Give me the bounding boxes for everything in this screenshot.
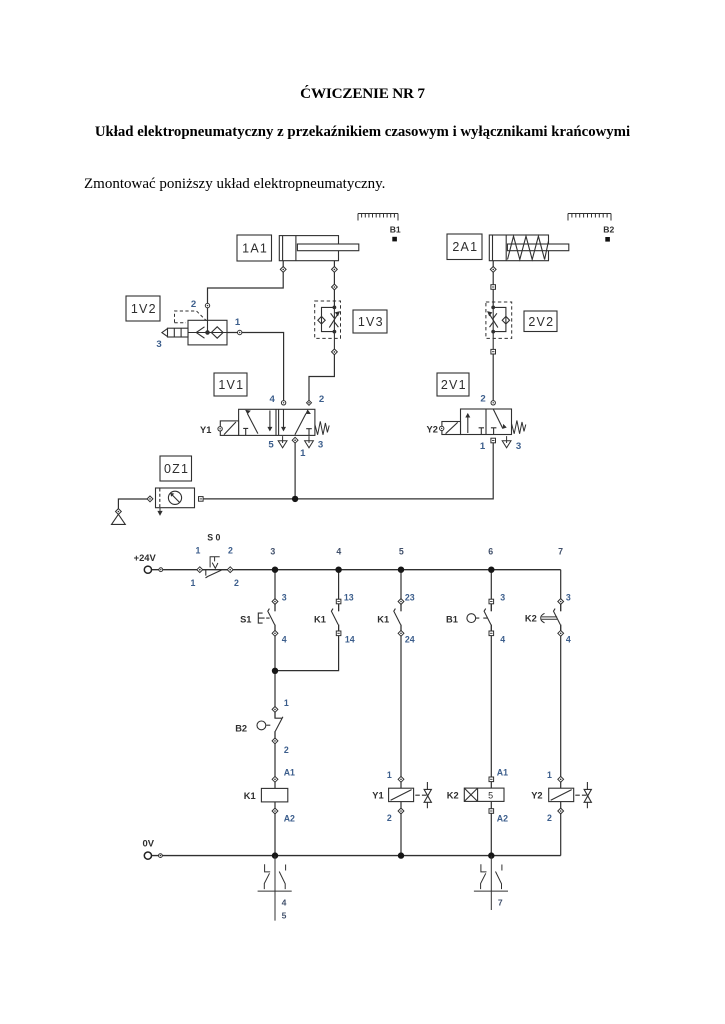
svg-text:5: 5 [282, 910, 287, 920]
label box 2A1 [447, 234, 482, 260]
cylinder 2A1 [489, 235, 569, 261]
svg-text:B2: B2 [235, 723, 247, 733]
svg-text:1: 1 [300, 448, 306, 459]
svg-text:1: 1 [235, 317, 241, 328]
svg-text:6: 6 [488, 547, 493, 557]
label box 0Z1 [160, 456, 192, 481]
2V1 arrowheads [466, 414, 470, 418]
pin node Y2 coil 1 [558, 776, 564, 782]
port node 0Z1 right [199, 497, 204, 502]
svg-text:2: 2 [284, 745, 289, 755]
flow control valve 1V3 [315, 301, 341, 338]
port node 1 (1V2) [238, 330, 242, 334]
wire rung 6 to K2 coil [490, 625, 492, 789]
svg-text:5: 5 [488, 791, 493, 801]
drain arrow 0Z1 [158, 508, 162, 515]
pin node S1 top [272, 599, 278, 605]
port node 1 (2V1) [491, 438, 496, 443]
svg-text:3: 3 [516, 441, 521, 452]
relay coil K1 [261, 788, 287, 802]
paragraph [84, 176, 385, 193]
wire 1V3 to 1V1 port 2 [309, 349, 334, 400]
cylinder 1A1 [279, 236, 359, 261]
pin node S0-right [227, 567, 233, 573]
svg-text:7: 7 [558, 547, 563, 557]
line connector [491, 349, 496, 354]
svg-text:3: 3 [282, 592, 287, 602]
line connector [491, 285, 496, 290]
svg-text:4: 4 [282, 635, 287, 645]
contact cross-reference K2 [474, 856, 508, 910]
pin node S1 bottom [272, 630, 278, 636]
node [205, 303, 209, 307]
svg-text:4: 4 [336, 547, 341, 557]
port node 0Z1 left [147, 496, 153, 502]
svg-text:2: 2 [228, 546, 233, 556]
document subtitle [0, 124, 725, 141]
muffler on 1V2 port 3 [162, 328, 188, 337]
svg-text:1: 1 [191, 578, 196, 588]
svg-text:1: 1 [387, 770, 392, 780]
junction rail rung 3 [272, 567, 278, 573]
svg-text:B1: B1 [390, 225, 401, 235]
svg-text:0Z1: 0Z1 [164, 462, 189, 476]
line connector [280, 267, 286, 273]
solenoid Y2 [442, 422, 461, 435]
label box 2V2 [524, 311, 557, 332]
svg-text:2V1: 2V1 [441, 378, 467, 392]
junction rail rung 6 [488, 567, 494, 573]
pin node B1 top [489, 599, 494, 604]
svg-text:2: 2 [387, 813, 392, 823]
label box 2V1 [437, 373, 469, 396]
svg-text:K1: K1 [377, 614, 389, 624]
port node 2 (2V1) [491, 401, 495, 405]
svg-text:B1: B1 [446, 614, 458, 624]
junction rail rung 5 [398, 567, 404, 573]
svg-text:K2: K2 [447, 791, 459, 801]
svg-text:S1: S1 [240, 614, 251, 624]
svg-text:3: 3 [156, 339, 161, 350]
label box 1A1 [237, 235, 272, 261]
pin node Y2 [440, 426, 444, 430]
return spring 2V1 [512, 421, 526, 434]
junction rung 3/4 [272, 668, 278, 674]
wire rung 5 upper [400, 570, 402, 612]
wire 1V1 port 1 down [294, 443, 296, 499]
label box 1V3 [353, 310, 387, 333]
label box 1V1 [214, 373, 247, 396]
label box 1V2 [126, 296, 160, 321]
wire 1A1 left port to 1V2 port 2 [208, 261, 284, 321]
pin node S0-left [197, 567, 203, 573]
junction 0V rung 6 [488, 852, 494, 858]
svg-text:5: 5 [399, 547, 404, 557]
svg-text:3: 3 [270, 547, 275, 557]
node [159, 568, 163, 572]
junction 0V rung 5 [398, 852, 404, 858]
svg-text:4: 4 [500, 635, 505, 645]
exhaust port 5 (1V1) [278, 436, 287, 448]
1V1 arrowheads [246, 410, 251, 414]
line connector [332, 284, 338, 290]
air supply source [112, 514, 126, 524]
svg-text:S 0: S 0 [207, 533, 220, 543]
line connector [332, 349, 338, 355]
line connector [116, 509, 122, 515]
wire rung 7 to Y2 coil [560, 625, 562, 789]
svg-text:1V3: 1V3 [358, 315, 384, 329]
svg-text:23: 23 [405, 592, 415, 602]
pin node K2 contact top [558, 599, 564, 605]
contact B1 (NO limit switch) [484, 602, 491, 634]
wire 2V2 to 2V1 port 2 [492, 349, 494, 400]
pin node Y1 coil 1 [398, 776, 404, 782]
flow control valve 2V2 [486, 302, 512, 338]
svg-text:+24V: +24V [134, 552, 157, 563]
line connector [490, 267, 496, 273]
pin node K1 bottom [336, 631, 341, 636]
wire 2A1 port to 2V2 [492, 261, 494, 305]
junction rail rung 4 [335, 567, 341, 573]
pin node B2 bottom [272, 738, 278, 744]
S0 detent latch [210, 557, 220, 569]
svg-text:1V1: 1V1 [218, 378, 244, 392]
wire rung 3 middle [274, 625, 276, 719]
svg-text:2: 2 [319, 394, 324, 405]
exhaust port 3 (2V1) [502, 436, 511, 448]
document title [0, 85, 725, 102]
wire rung 7 upper [560, 570, 562, 612]
0V supply rail [152, 855, 561, 857]
svg-text:1: 1 [547, 770, 552, 780]
wire 1A1 right port to 1V3 [333, 261, 335, 306]
svg-text:A2: A2 [497, 814, 508, 824]
contact K1 (NO, rung 5) [394, 602, 401, 634]
3/2 valve 2V1 body [461, 409, 512, 435]
svg-text:Y2: Y2 [531, 791, 542, 801]
pressure supply line [201, 443, 493, 499]
svg-text:3: 3 [318, 440, 323, 451]
pin node K1 coil A1 [272, 776, 278, 782]
terminal +24V [144, 566, 151, 573]
wire 0Z1 to air supply [118, 499, 147, 511]
wire Y2 coil to 0V rail [560, 802, 562, 856]
svg-text:A2: A2 [284, 814, 295, 824]
switch S0 [203, 570, 228, 578]
svg-text:4: 4 [566, 635, 571, 645]
contact cross-reference K1 [258, 856, 292, 921]
wire rung 4 upper [338, 570, 340, 612]
contact K1 (NO, rung 4) [331, 602, 338, 634]
marker square B1 [392, 237, 397, 242]
5/2 valve 1V1 body [239, 409, 315, 435]
return spring 1V1 [315, 421, 329, 435]
pin node K1 rung5 top [398, 599, 404, 605]
svg-text:2: 2 [191, 299, 196, 310]
distance ruler B2 [568, 214, 611, 221]
svg-text:2V2: 2V2 [528, 315, 554, 329]
pin node K2 coil A1 [489, 777, 494, 782]
timer relay coil K2 (delay 5) [464, 788, 504, 801]
exhaust port 3 (1V1) [305, 436, 314, 448]
port node 2 (1V1) [307, 400, 312, 405]
svg-text:2: 2 [480, 394, 485, 405]
svg-text:A1: A1 [497, 767, 508, 777]
pin node K2 contact bottom [558, 630, 564, 636]
svg-text:3: 3 [566, 592, 571, 602]
svg-text:3: 3 [500, 592, 505, 602]
port node 4 (1V1) [281, 401, 285, 405]
pin node K1 rung5 bottom [398, 630, 404, 636]
junction pressure line [292, 496, 298, 502]
svg-text:Y2: Y2 [427, 424, 438, 434]
pin node Y1 coil 2 [398, 808, 404, 814]
node [159, 854, 163, 858]
valve solenoid coil Y1 [389, 782, 432, 808]
pin node K1 coil A2 [272, 808, 278, 814]
pin node K2 coil A2 [489, 809, 494, 814]
svg-text:2: 2 [234, 578, 239, 588]
pin node Y1 [218, 427, 222, 431]
svg-text:4: 4 [282, 897, 287, 907]
wire rung 4 to rung 3 [275, 625, 339, 671]
valve solenoid coil Y2 [549, 782, 592, 808]
wire rung 6 upper [490, 570, 492, 612]
svg-text:14: 14 [345, 635, 355, 645]
svg-text:24: 24 [405, 635, 415, 645]
contact K2 (NO, delayed) [554, 602, 561, 634]
contact B2 (NC limit switch) [275, 712, 283, 739]
svg-text:B2: B2 [603, 225, 614, 235]
svg-text:1: 1 [284, 698, 289, 708]
svg-text:13: 13 [344, 592, 354, 602]
air service unit 0Z1 [156, 488, 195, 508]
svg-text:2A1: 2A1 [452, 240, 478, 254]
pin node B2 top [272, 707, 278, 713]
pilot dashed line 1V2 [175, 311, 207, 323]
svg-text:1: 1 [196, 546, 201, 556]
wire rung 3 to K1 coil [274, 731, 276, 788]
svg-text:0V: 0V [143, 837, 155, 848]
svg-text:K2: K2 [525, 614, 537, 624]
svg-text:1A1: 1A1 [242, 242, 268, 256]
pin node Y2 coil 2 [558, 808, 564, 814]
svg-text:7: 7 [498, 897, 503, 907]
wire rung 5 to Y1 coil [400, 625, 402, 789]
svg-text:Y1: Y1 [200, 425, 211, 435]
svg-text:4: 4 [270, 394, 276, 405]
contact S1 (NO pushbutton) [268, 602, 275, 634]
terminal 0V [144, 852, 151, 859]
svg-text:2: 2 [547, 813, 552, 823]
svg-text:K1: K1 [244, 791, 256, 801]
svg-text:K1: K1 [314, 614, 326, 624]
marker square B2 [605, 237, 610, 242]
wire K2 coil to 0V rail [490, 802, 492, 856]
line connector [332, 267, 338, 273]
wire Y1 coil to 0V rail [400, 802, 402, 856]
port node 1 (1V1) [292, 437, 298, 443]
solenoid Y1 [220, 421, 238, 436]
svg-text:5: 5 [268, 440, 274, 451]
svg-text:Y1: Y1 [372, 791, 383, 801]
quick exhaust valve 1V2 [188, 320, 227, 345]
junction 0V rung 3 [272, 852, 278, 858]
svg-text:1: 1 [480, 441, 486, 452]
wire rung 3 upper [274, 570, 276, 612]
svg-text:A1: A1 [284, 767, 295, 777]
+24V supply rail [152, 569, 561, 571]
pin node K1 top [336, 599, 341, 604]
pin node B1 bottom [489, 631, 494, 636]
svg-text:1V2: 1V2 [131, 302, 157, 316]
wire K1 coil to 0V rail [274, 802, 276, 856]
distance ruler B1 [358, 214, 398, 221]
wire 1V2 port 1 to 1V1 port 4 [227, 333, 284, 401]
